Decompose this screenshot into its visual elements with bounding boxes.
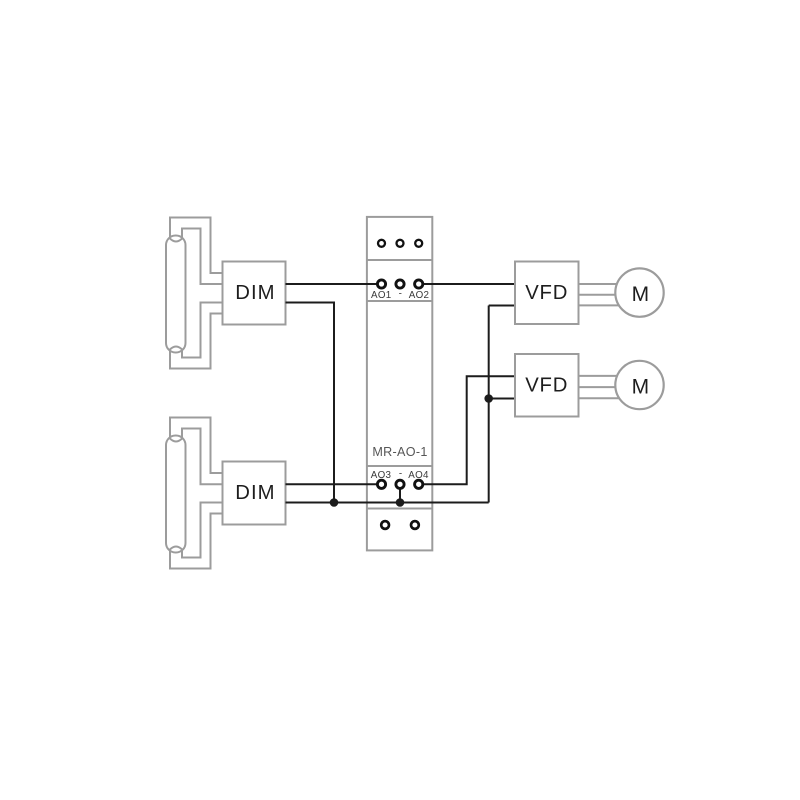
wire common riser right xyxy=(488,306,490,503)
svg-text:AO1: AO1 xyxy=(371,290,392,301)
wire lamp1 outer pin bottom to DIM1 xyxy=(170,314,223,369)
wire lamp2 inner pin bottom to DIM2 xyxy=(182,503,223,558)
wire VFD2 to motor M2 phase 1 xyxy=(579,375,623,377)
terminal AO1 circle xyxy=(377,280,385,288)
wire lamp1 inner pin bottom to DIM1 xyxy=(182,303,223,358)
svg-text:VFD: VFD xyxy=(525,282,568,304)
junction node at DIM1/DIM2 common xyxy=(330,498,339,507)
svg-text:DIM: DIM xyxy=(235,482,275,504)
module top terminal circle 1 xyxy=(378,240,385,247)
wire lamp2 outer pin top to DIM2 xyxy=(170,418,223,474)
drive VFD2 box xyxy=(515,354,579,417)
wire lamp2 inner pin top to DIM2 xyxy=(182,429,223,485)
motor M2 circle xyxy=(615,361,663,409)
motor M1 circle xyxy=(615,268,663,316)
dimmer DIM1 box xyxy=(223,262,286,325)
module divider line 4 xyxy=(367,508,432,510)
lamp2 tube xyxy=(166,436,186,553)
wire riser to VFD1 common input xyxy=(489,305,515,307)
module top terminal circle 3 xyxy=(415,240,422,247)
wire common bus DIM2 out2 across module to right riser xyxy=(286,502,489,504)
terminal AO- circle (row2 middle) xyxy=(396,480,404,488)
wire VFD1 to motor M1 phase 1 xyxy=(579,283,623,285)
svg-text:M: M xyxy=(632,283,650,306)
svg-text:-: - xyxy=(399,468,402,479)
svg-text:-: - xyxy=(399,288,402,299)
wire DIM1 out2 down to common node xyxy=(286,303,335,503)
lamp1 filament bottom xyxy=(169,347,183,351)
wire DIM2 out1 to AO3 xyxy=(286,483,377,485)
wire VFD1 to motor M1 phase 2 xyxy=(579,294,623,296)
svg-text:AO2: AO2 xyxy=(409,290,430,301)
terminal AO4 circle xyxy=(415,480,423,488)
module divider line 3 xyxy=(367,465,432,467)
wire VFD1 to motor M1 phase 3 xyxy=(579,304,623,306)
wire lamp1 inner pin top to DIM1 xyxy=(182,229,223,285)
lamp1 filament top xyxy=(169,238,183,242)
module divider line 2 xyxy=(367,300,432,302)
wire lamp1 outer pin top to DIM1 xyxy=(170,218,223,274)
wire AO2 to VFD1 input xyxy=(424,283,515,285)
lamp2 filament bottom xyxy=(169,547,183,551)
svg-text:VFD: VFD xyxy=(525,375,568,397)
terminal AO- circle (row1 middle) xyxy=(396,280,404,288)
svg-text:DIM: DIM xyxy=(235,282,275,304)
svg-text:MR-AO-1: MR-AO-1 xyxy=(372,445,427,459)
module bottom terminal circle 2 xyxy=(411,521,419,529)
module divider line 1 xyxy=(367,259,432,261)
wire lamp2 outer pin bottom to DIM2 xyxy=(170,514,223,569)
fluorescent lamp LAMP1 (top) xyxy=(166,218,223,369)
module top terminal circle 2 xyxy=(397,240,404,247)
junction node under AO- terminal xyxy=(396,498,405,507)
wire VFD2 to motor M2 phase 3 xyxy=(579,397,623,399)
junction node on right riser xyxy=(484,394,493,403)
lamp2 filament top xyxy=(169,438,183,442)
wire riser to VFD2 common input xyxy=(489,398,515,400)
dimmer DIM2 box xyxy=(223,462,286,525)
wire VFD2 to motor M2 phase 2 xyxy=(579,386,623,388)
wire AO- middle terminal stub xyxy=(399,488,401,502)
lamp1 tube xyxy=(166,236,186,353)
svg-text:M: M xyxy=(632,376,650,399)
terminal AO2 circle xyxy=(415,280,423,288)
fluorescent lamp LAMP2 (bottom) xyxy=(166,418,223,569)
terminal AO3 circle xyxy=(377,480,385,488)
drive VFD1 box xyxy=(515,262,579,325)
wire DIM1 out1 to AO1 xyxy=(286,283,377,285)
wire AO4 up to VFD2 input xyxy=(424,376,515,484)
module MR-AO-1 body xyxy=(367,217,432,551)
module bottom terminal circle 1 xyxy=(381,521,389,529)
